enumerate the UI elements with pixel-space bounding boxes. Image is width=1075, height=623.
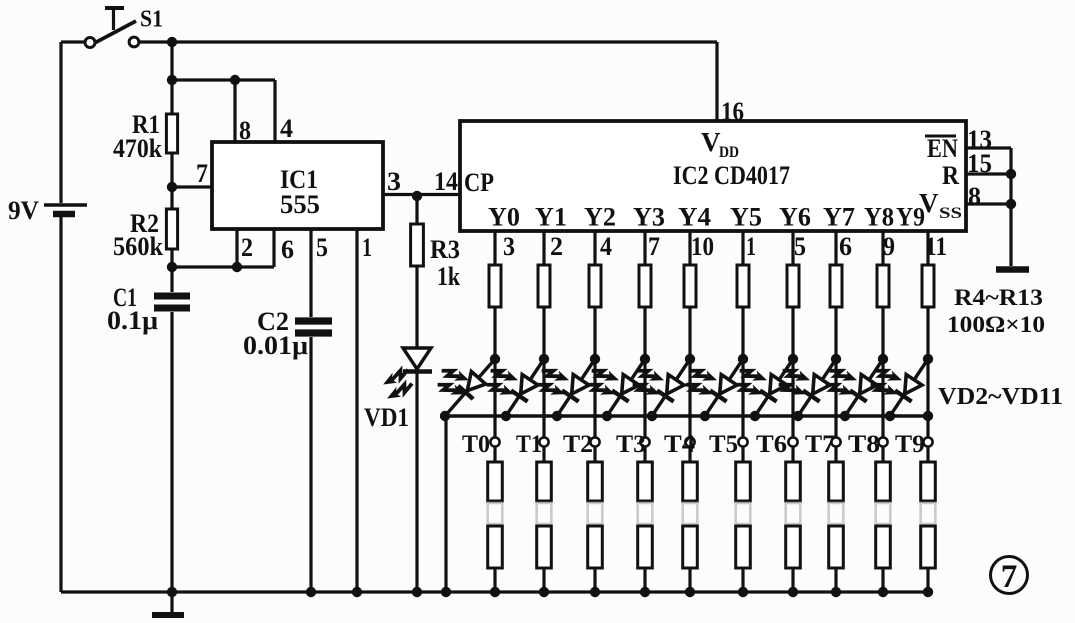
svg-text:Y1: Y1: [535, 203, 567, 232]
svg-text:9V: 9V: [8, 196, 39, 225]
svg-text:7: 7: [1001, 559, 1018, 595]
svg-text:1: 1: [746, 232, 756, 261]
svg-text:560k: 560k: [113, 232, 163, 261]
svg-text:VD2~VD11: VD2~VD11: [938, 384, 1063, 410]
svg-text:16: 16: [721, 97, 744, 126]
svg-text:T8: T8: [848, 431, 880, 458]
svg-text:Y2: Y2: [584, 203, 616, 232]
svg-text:555: 555: [280, 190, 320, 219]
svg-text:Y7: Y7: [823, 203, 855, 232]
svg-text:100Ω×10: 100Ω×10: [947, 312, 1045, 337]
svg-text:3: 3: [387, 167, 401, 196]
svg-text:Y9: Y9: [896, 203, 925, 232]
svg-text:T0: T0: [462, 431, 490, 458]
svg-text:0.01μ: 0.01μ: [243, 331, 308, 360]
svg-text:CP: CP: [464, 168, 494, 197]
svg-text:Y5: Y5: [730, 203, 762, 232]
svg-text:S1: S1: [140, 7, 163, 33]
svg-text:8: 8: [968, 182, 981, 211]
svg-text:7: 7: [196, 159, 208, 188]
svg-text:4: 4: [280, 114, 293, 143]
svg-text:R: R: [942, 161, 959, 190]
svg-text:VD1: VD1: [364, 403, 409, 432]
svg-text:V: V: [701, 127, 721, 157]
svg-text:3: 3: [503, 232, 515, 261]
svg-text:1k: 1k: [437, 262, 460, 291]
svg-text:8: 8: [239, 116, 251, 145]
svg-text:Y0: Y0: [488, 203, 520, 232]
svg-text:SS: SS: [939, 205, 962, 222]
svg-text:4: 4: [600, 232, 612, 261]
svg-text:T9: T9: [895, 431, 925, 458]
svg-text:R4~R13: R4~R13: [954, 285, 1043, 310]
svg-text:2: 2: [550, 232, 563, 261]
svg-text:T5: T5: [709, 431, 738, 458]
svg-text:6: 6: [281, 235, 294, 264]
svg-text:Y6: Y6: [779, 203, 811, 232]
svg-text:0.1μ: 0.1μ: [107, 306, 158, 335]
svg-text:Y8: Y8: [864, 203, 894, 232]
svg-text:11: 11: [925, 232, 947, 261]
svg-text:10: 10: [691, 232, 714, 261]
svg-text:7: 7: [648, 232, 660, 261]
svg-text:R3: R3: [430, 235, 460, 264]
svg-text:5: 5: [316, 233, 328, 262]
svg-text:IC2 CD4017: IC2 CD4017: [673, 161, 790, 190]
svg-text:T2: T2: [563, 431, 593, 458]
svg-text:1: 1: [362, 233, 372, 262]
svg-text:T1: T1: [516, 431, 542, 458]
svg-text:Y4: Y4: [678, 203, 711, 232]
svg-text:6: 6: [839, 232, 852, 261]
svg-text:5: 5: [794, 232, 806, 261]
svg-text:T3: T3: [616, 431, 646, 458]
svg-text:T6: T6: [756, 431, 787, 458]
svg-text:EN: EN: [927, 134, 958, 163]
svg-text:2: 2: [241, 233, 253, 262]
svg-text:470k: 470k: [113, 134, 162, 163]
svg-text:DD: DD: [719, 144, 739, 161]
svg-text:T4: T4: [664, 431, 696, 458]
svg-text:T7: T7: [805, 431, 835, 458]
svg-text:Y3: Y3: [633, 203, 665, 232]
svg-text:14: 14: [434, 167, 458, 196]
svg-text:9: 9: [883, 232, 895, 261]
